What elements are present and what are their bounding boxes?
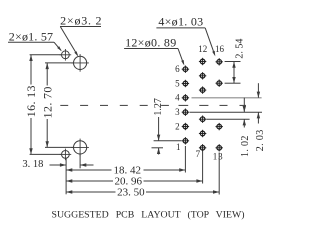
extension line from bottom large hole [45,146,73,148]
extension from pin13 down [218,153,220,195]
pin 7 hole [199,144,206,151]
svg-text:3: 3 [175,107,180,117]
extension from pin1 down [184,146,186,173]
mounting hole bottom large (ø3.2) [71,139,89,157]
svg-text:12: 12 [198,44,207,54]
pin 10 hole [199,86,206,93]
svg-text:2: 2 [175,121,180,131]
svg-text:12. 70: 12. 70 [40,86,54,118]
pin 3 hole [182,109,189,116]
mounting hole top large (ø3.2) [71,54,89,72]
mounting hole bottom small (ø1.57) [60,149,72,161]
leader to large hole [60,27,77,56]
extension line from top large hole [45,62,73,64]
svg-text:7: 7 [196,149,201,159]
leader to pin16 hole [205,28,214,55]
line from pin9 row right [207,118,250,120]
pin 11 hole [199,72,206,79]
svg-text:18. 42: 18. 42 [114,164,142,176]
dimension 20.96 [66,180,113,182]
pin 9 hole [199,116,206,123]
pin 12 hole [199,58,206,65]
svg-text:5: 5 [175,78,180,88]
pin 15 hole [216,80,223,87]
mounting hole top small (ø1.57) [60,49,72,61]
svg-text:2. 54: 2. 54 [234,39,245,59]
svg-text:12×ø0. 89: 12×ø0. 89 [125,35,176,49]
gray line at pin4 row [192,97,262,99]
svg-text:2×ø1. 57: 2×ø1. 57 [9,29,54,43]
svg-text:1.27: 1.27 [153,98,164,116]
pin 14 hole [216,123,223,130]
svg-text:2. 03: 2. 03 [255,129,266,151]
dimension 2.03 [257,83,259,98]
svg-text:13: 13 [213,152,224,162]
dimension 2.54 [233,62,235,84]
svg-text:2×ø3. 2: 2×ø3. 2 [60,13,102,27]
extension line from bottom small hole [30,153,62,155]
centerline (dashed horizontal axis) [60,104,68,106]
pin 6 hole [182,66,189,73]
line from pin15 right [225,82,241,84]
pin 13 hole [216,144,223,151]
line from pin1 left [154,140,182,142]
pin 16 hole [216,58,223,65]
svg-text:6: 6 [175,64,180,74]
svg-text:16: 16 [215,44,225,54]
dimension 16.13 vertical line [30,55,32,85]
pin 1 hole [182,137,189,144]
pin 2 hole [182,123,189,130]
line from pin16 right [225,61,241,63]
dimension 12.70 vertical line [46,63,48,86]
dimension 18.42 [66,169,111,171]
svg-text:1: 1 [176,142,181,152]
extension from small hole down [65,159,67,195]
svg-text:SUGGESTED PCB LAYOUT (TOP VIEW: SUGGESTED PCB LAYOUT (TOP VIEW) [52,209,245,220]
dimension 1.02 [243,98,245,112]
svg-text:23. 50: 23. 50 [117,187,145,199]
svg-text:3. 18: 3. 18 [22,159,43,170]
extension from large hole down [79,154,81,168]
dimension 23.50 [66,191,115,193]
extension from pin7 down [202,152,204,184]
svg-text:4×ø1. 03: 4×ø1. 03 [158,15,203,29]
extension line from top small hole [30,54,62,56]
line from pin7 left [152,147,164,149]
pin 4 hole [182,94,189,101]
svg-text:4: 4 [175,93,180,103]
pin 8 hole [199,130,206,137]
pin 5 hole [182,80,189,87]
dimension 1.27 [158,117,160,141]
svg-text:1. 02: 1. 02 [240,135,251,157]
leader to small hole [54,42,61,50]
svg-text:16. 13: 16. 13 [24,85,38,117]
leader to pin6 hole [178,49,184,64]
line from pin3 right [190,111,263,113]
